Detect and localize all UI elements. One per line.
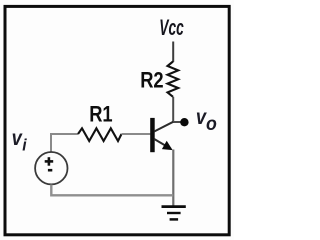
svg-text:R1: R1: [89, 102, 112, 127]
wire R2 to collector node: [172, 97, 174, 122]
wire Vcc stub: [172, 42, 174, 63]
plus sign: [45, 157, 54, 166]
svg-text:R2: R2: [140, 68, 163, 93]
transistor Q1 collector line: [154, 122, 173, 132]
svg-text:Vcc: Vcc: [159, 15, 183, 40]
resistor R1: [78, 128, 122, 141]
wire vi bottom: [51, 185, 173, 196]
minus sign: [48, 169, 52, 172]
transistor Q1 emitter arrowhead: [162, 141, 173, 150]
svg-text:v: v: [12, 126, 23, 150]
transistor Q1 base bar: [150, 118, 155, 152]
label vo: [196, 105, 217, 134]
label vi: [12, 126, 28, 154]
svg-text:i: i: [22, 136, 27, 154]
border frame: [5, 6, 229, 234]
wire emitter down: [172, 150, 174, 207]
ground: [162, 207, 186, 220]
wire R1 to base: [122, 133, 151, 135]
resistor R2: [168, 62, 179, 97]
svg-text:o: o: [206, 112, 217, 134]
wire vi top corner: [51, 134, 78, 152]
transistor Q1 emitter line: [154, 139, 171, 149]
wire node stub to vo dot: [172, 121, 181, 123]
source Vi circle: [35, 152, 67, 184]
node vo dot: [180, 118, 188, 126]
